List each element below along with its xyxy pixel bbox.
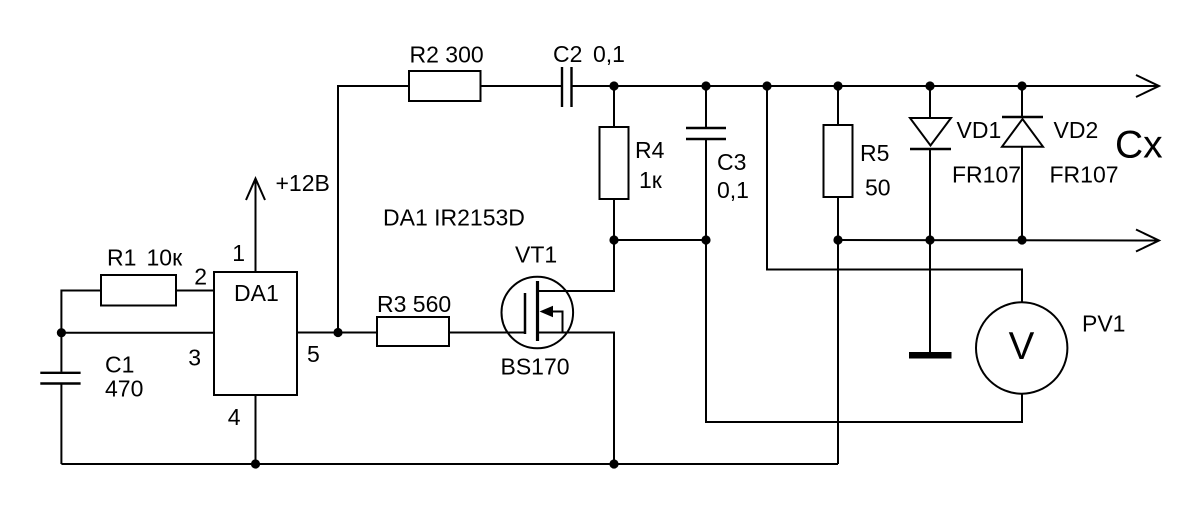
svg-text:R3 560: R3 560	[377, 291, 451, 317]
svg-text:V: V	[1009, 325, 1035, 368]
diode VD2	[1002, 116, 1043, 118]
wire mid rail left (drain net)	[614, 239, 706, 241]
wire R4 bottom	[613, 199, 615, 240]
wire R5 top	[837, 86, 839, 125]
svg-text:VD2: VD2	[1054, 117, 1099, 143]
source wire	[538, 333, 615, 465]
svg-text:FR107: FR107	[1050, 162, 1119, 188]
node pin5 junction	[333, 328, 342, 337]
resistor R1	[101, 275, 176, 306]
svg-text:DA1 IR2153D: DA1 IR2153D	[383, 205, 525, 231]
wire R4 top	[613, 86, 615, 127]
svg-text:R4: R4	[635, 137, 665, 163]
arrow Cx top output	[1136, 75, 1159, 97]
wire pin 4	[255, 395, 257, 464]
ground	[909, 352, 952, 359]
wire C3 top	[705, 86, 707, 127]
node bottom junctions	[251, 459, 619, 468]
wire pin 2	[176, 290, 214, 292]
capacitor C3	[686, 127, 726, 129]
resistor R3	[377, 317, 449, 346]
svg-text:50: 50	[865, 175, 891, 201]
wire top rail left segment	[338, 86, 409, 333]
wire PV1 bottom return	[706, 240, 1022, 422]
svg-text:10к: 10к	[147, 245, 184, 271]
svg-text:C2: C2	[553, 41, 582, 67]
node left junction	[57, 328, 66, 337]
svg-text:R2 300: R2 300	[410, 42, 484, 68]
capacitor C2	[561, 67, 563, 107]
resistor R2	[409, 71, 481, 101]
wire VD1 top	[929, 86, 931, 118]
wire pin 3	[61, 332, 214, 334]
wire VD2 bottom	[1021, 147, 1023, 240]
svg-text:0,1: 0,1	[593, 41, 625, 67]
svg-text:2: 2	[194, 264, 207, 290]
IC DA1	[214, 272, 297, 395]
drain wire	[538, 240, 615, 291]
node top rail junctions	[609, 81, 1026, 90]
svg-text:3: 3	[188, 345, 201, 371]
resistor R4	[600, 127, 629, 199]
node mid rail junctions	[609, 235, 1026, 244]
svg-text:C1: C1	[105, 351, 134, 377]
resistor R5	[824, 125, 853, 197]
wire R1 left	[61, 291, 101, 333]
svg-text:VT1: VT1	[515, 242, 557, 268]
voltmeter PV1	[976, 302, 1067, 393]
wire VD1 bottom	[929, 149, 931, 240]
svg-text:R1: R1	[107, 245, 136, 271]
wire R5 bottom column	[837, 197, 839, 464]
svg-text:1к: 1к	[639, 167, 663, 193]
svg-text:PV1: PV1	[1082, 311, 1125, 337]
svg-text:FR107: FR107	[952, 162, 1021, 188]
svg-text:5: 5	[307, 341, 320, 367]
diode VD1	[910, 118, 951, 146]
svg-text:1: 1	[232, 240, 245, 266]
transistor VT1	[502, 277, 574, 349]
wire gate	[449, 332, 524, 334]
arrow Cx bottom output	[1136, 230, 1159, 252]
svg-text:BS170: BS170	[501, 354, 570, 380]
source arrow	[540, 306, 554, 317]
wire pin 5	[297, 332, 377, 334]
wire mid rail right segment	[838, 239, 1159, 242]
svg-text:+12В: +12В	[276, 170, 330, 196]
capacitor C1	[60, 333, 62, 372]
gate bar	[524, 293, 527, 334]
wire C3 bottom	[705, 140, 707, 240]
svg-text:4: 4	[228, 404, 241, 430]
svg-text:VD1: VD1	[957, 117, 1002, 143]
svg-text:470: 470	[105, 376, 143, 402]
wire R2 to C2	[481, 85, 562, 87]
svg-text:Cx: Cx	[1115, 124, 1163, 167]
wire PV1 top feed	[767, 86, 1022, 302]
svg-text:R5: R5	[860, 140, 889, 166]
svg-text:DA1: DA1	[234, 280, 279, 306]
wire top rail right segment	[573, 85, 1160, 87]
svg-text:0,1: 0,1	[717, 177, 749, 203]
wire VD2 top	[1021, 86, 1023, 117]
wire bottom rail	[61, 463, 838, 465]
svg-text:C3: C3	[717, 149, 746, 175]
wire ground drop	[929, 240, 931, 352]
channel bar	[536, 281, 539, 341]
wire pin1 +12V arrow line	[255, 179, 257, 272]
